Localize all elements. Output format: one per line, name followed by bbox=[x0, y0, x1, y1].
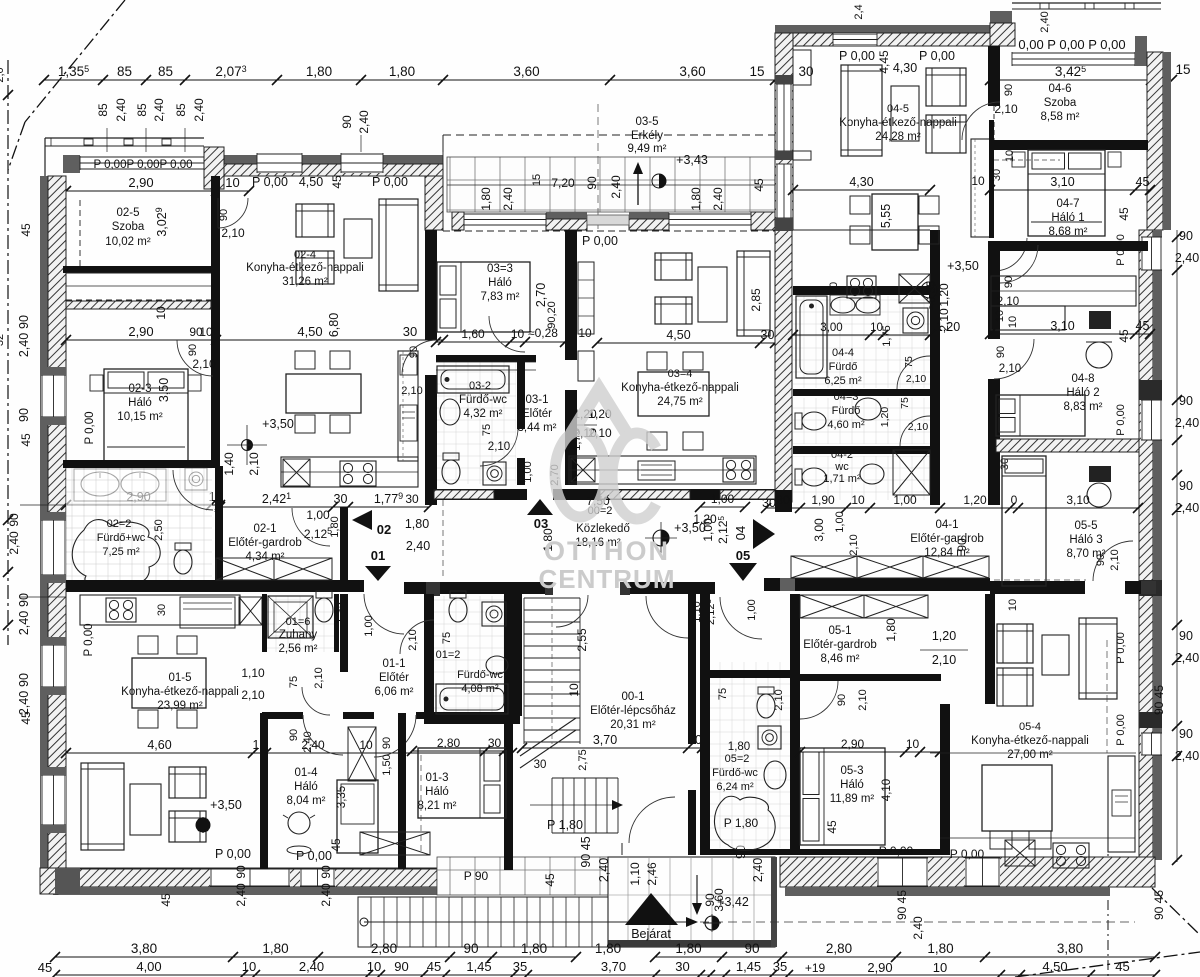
svg-text:7,83 m²: 7,83 m² bbox=[481, 291, 520, 303]
svg-text:10,15 m²: 10,15 m² bbox=[117, 411, 163, 423]
svg-text:3,10: 3,10 bbox=[1066, 493, 1090, 507]
svg-text:90: 90 bbox=[17, 593, 31, 607]
svg-text:Zuhany: Zuhany bbox=[279, 629, 318, 641]
svg-text:90: 90 bbox=[836, 694, 848, 706]
svg-text:P 0,00P 0,00P 0,00: P 0,00P 0,00P 0,00 bbox=[93, 159, 192, 171]
svg-text:1,80: 1,80 bbox=[728, 741, 750, 753]
svg-text:30: 30 bbox=[991, 169, 1003, 181]
svg-text:10: 10 bbox=[994, 310, 1006, 322]
svg-text:7,25 m²: 7,25 m² bbox=[102, 546, 140, 558]
svg-text:2,40: 2,40 bbox=[114, 98, 128, 122]
svg-text:1,50: 1,50 bbox=[381, 754, 393, 775]
svg-text:90: 90 bbox=[340, 115, 354, 129]
svg-text:90: 90 bbox=[17, 673, 31, 687]
svg-text:10: 10 bbox=[851, 493, 865, 507]
svg-text:85: 85 bbox=[174, 103, 188, 117]
svg-text:2,10: 2,10 bbox=[401, 385, 422, 397]
svg-text:4,08 m²: 4,08 m² bbox=[461, 683, 499, 695]
svg-text:90: 90 bbox=[394, 959, 408, 974]
svg-text:3,44 m²: 3,44 m² bbox=[518, 422, 557, 434]
svg-text:90 45: 90 45 bbox=[1152, 685, 1166, 715]
svg-text:CENTRUM: CENTRUM bbox=[539, 564, 676, 594]
svg-text:01-4: 01-4 bbox=[294, 767, 318, 779]
svg-text:P 0,00: P 0,00 bbox=[1115, 632, 1127, 664]
svg-text:1,00: 1,00 bbox=[306, 508, 330, 522]
svg-text:2,0: 2,0 bbox=[0, 67, 6, 82]
svg-text:45: 45 bbox=[543, 873, 557, 887]
svg-text:2,10: 2,10 bbox=[848, 534, 860, 555]
svg-text:Konyha-étkező-nappali: Konyha-étkező-nappali bbox=[839, 117, 957, 129]
svg-text:2,40: 2,40 bbox=[17, 611, 31, 635]
svg-text:P 0,00: P 0,00 bbox=[839, 49, 875, 63]
svg-text:+3,50: +3,50 bbox=[210, 798, 242, 812]
svg-text:31,26 m²: 31,26 m² bbox=[282, 276, 328, 288]
svg-text:2,40: 2,40 bbox=[7, 531, 21, 555]
svg-text:Háló: Háló bbox=[128, 397, 152, 409]
svg-text:90: 90 bbox=[218, 209, 230, 221]
svg-text:01-5: 01-5 bbox=[168, 672, 191, 684]
svg-text:6,80: 6,80 bbox=[327, 313, 341, 337]
svg-text:1,80: 1,80 bbox=[521, 941, 547, 956]
svg-text:11,89 m²: 11,89 m² bbox=[830, 793, 875, 805]
svg-text:2,10: 2,10 bbox=[241, 688, 265, 702]
svg-text:P 90: P 90 bbox=[464, 869, 489, 883]
svg-text:3,10: 3,10 bbox=[1050, 319, 1074, 333]
svg-text:10: 10 bbox=[242, 959, 256, 974]
svg-text:75: 75 bbox=[717, 688, 729, 700]
svg-text:45: 45 bbox=[427, 959, 441, 974]
svg-text:30: 30 bbox=[534, 759, 547, 771]
svg-text:30: 30 bbox=[405, 492, 419, 506]
svg-text:2,10: 2,10 bbox=[773, 689, 785, 710]
svg-text:Fürdő: Fürdő bbox=[829, 361, 858, 373]
svg-text:2,10: 2,10 bbox=[906, 373, 927, 385]
svg-text:2,10: 2,10 bbox=[999, 363, 1021, 375]
svg-text:35: 35 bbox=[513, 959, 527, 974]
svg-text:90: 90 bbox=[17, 408, 31, 422]
svg-text:1,80: 1,80 bbox=[262, 941, 288, 956]
svg-text:+3,43: +3,43 bbox=[676, 153, 708, 167]
svg-text:15: 15 bbox=[531, 174, 543, 186]
svg-text:1,00: 1,00 bbox=[711, 492, 735, 506]
svg-text:1,20: 1,20 bbox=[963, 493, 987, 507]
svg-text:1,80: 1,80 bbox=[927, 941, 953, 956]
svg-text:Háló: Háló bbox=[840, 779, 864, 791]
svg-text:1,10: 1,10 bbox=[241, 666, 265, 680]
svg-text:Fürdő-wc: Fürdő-wc bbox=[459, 394, 507, 406]
svg-text:02=2: 02=2 bbox=[107, 518, 132, 530]
svg-text:6,06 m²: 6,06 m² bbox=[375, 686, 414, 698]
svg-text:01-1: 01-1 bbox=[382, 658, 405, 670]
svg-text:45: 45 bbox=[19, 433, 33, 447]
svg-text:10: 10 bbox=[225, 175, 239, 190]
svg-text:45: 45 bbox=[330, 175, 344, 189]
svg-text:2,40: 2,40 bbox=[501, 187, 515, 211]
svg-text:1,20: 1,20 bbox=[693, 512, 717, 526]
svg-text:1,60: 1,60 bbox=[461, 327, 485, 341]
svg-text:3,70: 3,70 bbox=[601, 959, 626, 974]
svg-text:30: 30 bbox=[403, 324, 417, 339]
svg-text:4,60: 4,60 bbox=[147, 738, 171, 752]
svg-text:2,55: 2,55 bbox=[575, 628, 589, 652]
svg-text:2,10: 2,10 bbox=[313, 667, 325, 688]
svg-text:0: 0 bbox=[1011, 493, 1018, 507]
svg-text:85: 85 bbox=[96, 103, 110, 117]
svg-text:10: 10 bbox=[933, 960, 947, 975]
svg-text:75: 75 bbox=[288, 676, 300, 688]
svg-text:45: 45 bbox=[159, 893, 173, 907]
svg-text:2,40: 2,40 bbox=[711, 187, 725, 211]
svg-text:3,60: 3,60 bbox=[513, 64, 539, 79]
svg-text:2,40: 2,40 bbox=[1039, 11, 1051, 32]
svg-text:1,10: 1,10 bbox=[628, 862, 642, 886]
svg-text:1,00: 1,00 bbox=[522, 461, 534, 482]
svg-text:4,50: 4,50 bbox=[666, 328, 690, 342]
svg-text:Konyha-étkező-nappali: Konyha-étkező-nappali bbox=[121, 686, 239, 698]
svg-text:7,20: 7,20 bbox=[551, 176, 575, 190]
svg-text:4,30: 4,30 bbox=[849, 175, 873, 189]
svg-text:Fürdő: Fürdő bbox=[832, 405, 861, 417]
svg-text:10: 10 bbox=[199, 325, 213, 339]
svg-text:35: 35 bbox=[773, 959, 787, 974]
svg-text:Előtér-gardrob: Előtér-gardrob bbox=[910, 533, 984, 545]
svg-text:Háló: Háló bbox=[294, 781, 318, 793]
svg-text:20,31 m²: 20,31 m² bbox=[610, 719, 656, 731]
svg-text:OTTHON: OTTHON bbox=[544, 536, 670, 566]
svg-text:2,56 m²: 2,56 m² bbox=[279, 643, 318, 655]
svg-text:04: 04 bbox=[733, 526, 748, 540]
svg-text:4,00: 4,00 bbox=[136, 959, 161, 974]
svg-text:P 0,00: P 0,00 bbox=[582, 234, 618, 248]
svg-text:3,60: 3,60 bbox=[712, 888, 726, 912]
svg-text:01=6: 01=6 bbox=[286, 616, 311, 628]
svg-text:75: 75 bbox=[899, 397, 911, 409]
svg-text:90: 90 bbox=[585, 176, 599, 190]
svg-text:3,10: 3,10 bbox=[1050, 175, 1074, 189]
svg-text:4,10: 4,10 bbox=[881, 779, 893, 801]
svg-text:2,10: 2,10 bbox=[221, 226, 245, 240]
svg-text:2,90: 2,90 bbox=[128, 175, 153, 190]
svg-text:1,45: 1,45 bbox=[736, 959, 761, 974]
svg-text:2,50: 2,50 bbox=[153, 519, 165, 540]
svg-text:P 0,00: P 0,00 bbox=[252, 175, 288, 189]
svg-text:90: 90 bbox=[187, 344, 199, 356]
svg-text:05-5: 05-5 bbox=[1074, 520, 1097, 532]
svg-text:Közlekedő: Közlekedő bbox=[576, 523, 630, 535]
svg-text:+3,50: +3,50 bbox=[947, 259, 979, 273]
svg-text:00-1: 00-1 bbox=[621, 691, 644, 703]
svg-text:45: 45 bbox=[825, 820, 839, 834]
svg-text:8,04 m²: 8,04 m² bbox=[287, 795, 326, 807]
svg-text:2,40: 2,40 bbox=[911, 916, 925, 940]
svg-text:90: 90 bbox=[463, 941, 478, 956]
svg-text:P 0,00: P 0,00 bbox=[296, 849, 332, 863]
svg-text:10: 10 bbox=[828, 282, 840, 294]
svg-text:90 45: 90 45 bbox=[895, 890, 909, 920]
svg-text:1,20: 1,20 bbox=[937, 283, 951, 307]
svg-text:Fürdő+wc: Fürdő+wc bbox=[97, 532, 146, 544]
svg-text:90: 90 bbox=[234, 865, 248, 879]
svg-text:1,80: 1,80 bbox=[329, 516, 341, 537]
svg-text:2,40: 2,40 bbox=[234, 883, 248, 907]
svg-text:4,60 m²: 4,60 m² bbox=[827, 419, 865, 431]
svg-text:10: 10 bbox=[1007, 316, 1019, 328]
svg-text:P 1,80: P 1,80 bbox=[724, 816, 759, 830]
svg-text:05-4: 05-4 bbox=[1019, 721, 1041, 733]
svg-text:+19: +19 bbox=[805, 961, 826, 975]
svg-text:27,00 m²: 27,00 m² bbox=[1007, 749, 1053, 761]
svg-text:2,10: 2,10 bbox=[994, 102, 1018, 116]
svg-text:Fürdő-wc: Fürdő-wc bbox=[712, 767, 758, 779]
svg-text:8,83 m²: 8,83 m² bbox=[1064, 401, 1103, 413]
svg-text:24,75 m²: 24,75 m² bbox=[657, 396, 703, 408]
svg-text:2,40: 2,40 bbox=[609, 175, 623, 199]
svg-text:2,10: 2,10 bbox=[407, 629, 419, 650]
svg-text:2,80: 2,80 bbox=[826, 941, 852, 956]
svg-text:1,80: 1,80 bbox=[389, 64, 415, 79]
svg-text:Háló: Háló bbox=[425, 786, 449, 798]
svg-text:P 0,00: P 0,00 bbox=[879, 844, 914, 858]
svg-text:1,80: 1,80 bbox=[689, 187, 703, 211]
svg-text:10: 10 bbox=[511, 327, 525, 341]
svg-text:4,45: 4,45 bbox=[877, 50, 891, 74]
svg-text:2,90: 2,90 bbox=[128, 324, 153, 339]
svg-text:Háló 3: Háló 3 bbox=[1069, 534, 1102, 546]
svg-text:4,32 m²: 4,32 m² bbox=[464, 408, 503, 420]
svg-text:5,55: 5,55 bbox=[879, 204, 893, 228]
svg-text:2,10: 2,10 bbox=[192, 357, 216, 371]
svg-text:90: 90 bbox=[381, 737, 393, 749]
svg-text:04-6: 04-6 bbox=[1048, 83, 1071, 95]
svg-text:9,49 m²: 9,49 m² bbox=[628, 143, 667, 155]
svg-text:3,80: 3,80 bbox=[131, 941, 157, 956]
svg-text:Előtér-gardrob: Előtér-gardrob bbox=[803, 639, 877, 651]
svg-text:90: 90 bbox=[995, 346, 1007, 358]
svg-text:P 0,00: P 0,00 bbox=[84, 411, 96, 444]
svg-text:2,80: 2,80 bbox=[371, 941, 397, 956]
svg-text:85: 85 bbox=[135, 103, 149, 117]
svg-text:2,80: 2,80 bbox=[437, 736, 461, 750]
svg-text:2,40: 2,40 bbox=[299, 959, 324, 974]
svg-text:Konyha-étkező-nappali: Konyha-étkező-nappali bbox=[971, 735, 1089, 747]
svg-text:45: 45 bbox=[1136, 319, 1150, 333]
svg-text:2,46: 2,46 bbox=[645, 862, 659, 886]
svg-text:30: 30 bbox=[488, 736, 502, 750]
svg-text:P 0,00: P 0,00 bbox=[919, 49, 955, 63]
svg-text:90: 90 bbox=[1095, 554, 1107, 566]
svg-text:90 45: 90 45 bbox=[579, 836, 593, 867]
svg-text:2,75: 2,75 bbox=[577, 749, 589, 770]
svg-text:45: 45 bbox=[1117, 329, 1131, 343]
svg-text:10: 10 bbox=[567, 683, 581, 697]
svg-text:05=2: 05=2 bbox=[725, 753, 750, 765]
svg-text:1,80: 1,80 bbox=[675, 941, 701, 956]
svg-text:3,00: 3,00 bbox=[820, 322, 842, 334]
svg-text:90: 90 bbox=[1003, 84, 1015, 96]
svg-text:12,84 m²: 12,84 m² bbox=[924, 547, 970, 559]
svg-text:1,80: 1,80 bbox=[479, 187, 493, 211]
svg-text:4,50: 4,50 bbox=[1042, 959, 1067, 974]
svg-text:4,50: 4,50 bbox=[299, 175, 323, 189]
svg-text:04-7: 04-7 bbox=[1056, 198, 1079, 210]
svg-text:45: 45 bbox=[38, 960, 52, 975]
svg-text:Háló: Háló bbox=[488, 277, 512, 289]
svg-text:90: 90 bbox=[288, 729, 300, 741]
svg-text:90: 90 bbox=[1179, 629, 1193, 643]
svg-text:30: 30 bbox=[776, 493, 790, 507]
svg-text:90: 90 bbox=[1179, 479, 1193, 493]
svg-text:Előtér-gardrob: Előtér-gardrob bbox=[228, 537, 302, 549]
svg-text:3,60: 3,60 bbox=[679, 64, 705, 79]
svg-text:2,10: 2,10 bbox=[997, 296, 1019, 308]
svg-text:2,90: 2,90 bbox=[867, 960, 892, 975]
svg-text:45: 45 bbox=[1115, 959, 1129, 974]
svg-text:90: 90 bbox=[7, 513, 21, 527]
svg-text:10: 10 bbox=[1007, 599, 1019, 611]
svg-text:2,90: 2,90 bbox=[841, 737, 865, 751]
svg-text:6,24 m²: 6,24 m² bbox=[716, 781, 754, 793]
svg-text:Szoba: Szoba bbox=[112, 221, 145, 233]
svg-text:45: 45 bbox=[752, 178, 766, 192]
svg-text:1,80: 1,80 bbox=[884, 618, 898, 642]
svg-text:90: 90 bbox=[1003, 276, 1015, 288]
svg-text:15: 15 bbox=[749, 64, 764, 79]
svg-text:90: 90 bbox=[1179, 229, 1193, 243]
svg-text:1,80: 1,80 bbox=[306, 64, 332, 79]
svg-text:04-2: 04-2 bbox=[831, 449, 853, 461]
svg-text:2,40: 2,40 bbox=[1175, 749, 1199, 763]
svg-text:Erkély: Erkély bbox=[631, 130, 663, 142]
svg-text:3,80: 3,80 bbox=[1057, 941, 1083, 956]
svg-text:90 45: 90 45 bbox=[1152, 890, 1166, 920]
svg-text:P 0,00: P 0,00 bbox=[950, 847, 985, 861]
svg-text:03-2: 03-2 bbox=[469, 380, 491, 392]
svg-text:1,80: 1,80 bbox=[595, 941, 621, 956]
svg-text:45: 45 bbox=[19, 711, 33, 725]
svg-text:1,45: 1,45 bbox=[466, 959, 491, 974]
svg-text:6,25 m²: 6,25 m² bbox=[824, 375, 862, 387]
svg-text:75: 75 bbox=[441, 632, 453, 644]
svg-text:Fürdő-wc: Fürdő-wc bbox=[457, 669, 503, 681]
svg-text:10: 10 bbox=[971, 174, 985, 188]
svg-text:90: 90 bbox=[319, 865, 333, 879]
svg-text:2,10: 2,10 bbox=[908, 421, 929, 433]
svg-text:10: 10 bbox=[578, 326, 592, 340]
svg-text:2,4: 2,4 bbox=[853, 4, 865, 19]
svg-text:04=3: 04=3 bbox=[834, 391, 859, 403]
svg-text:P 0,00: P 0,00 bbox=[83, 623, 95, 656]
svg-text:90: 90 bbox=[408, 346, 420, 358]
svg-text:wc: wc bbox=[834, 461, 849, 473]
svg-text:2,10: 2,10 bbox=[1109, 549, 1121, 570]
svg-text:2,40: 2,40 bbox=[192, 98, 206, 122]
svg-text:75: 75 bbox=[481, 424, 493, 436]
svg-text:30: 30 bbox=[675, 959, 689, 974]
svg-text:1,00: 1,00 bbox=[834, 511, 846, 532]
svg-text:75: 75 bbox=[903, 356, 915, 368]
svg-text:8,46 m²: 8,46 m² bbox=[821, 653, 860, 665]
svg-text:Bejárat: Bejárat bbox=[631, 927, 671, 941]
svg-text:P 0,00: P 0,00 bbox=[215, 847, 251, 861]
svg-text:1,90: 1,90 bbox=[811, 493, 835, 507]
svg-text:30: 30 bbox=[334, 492, 348, 506]
svg-text:1,00: 1,00 bbox=[363, 615, 375, 636]
svg-text:04-1: 04-1 bbox=[935, 519, 958, 531]
svg-text:4,50: 4,50 bbox=[297, 324, 322, 339]
svg-text:90: 90 bbox=[17, 315, 31, 329]
svg-text:01=2: 01=2 bbox=[436, 649, 461, 661]
svg-text:30: 30 bbox=[156, 604, 168, 616]
svg-text:2,40: 2,40 bbox=[1175, 251, 1199, 265]
svg-text:Szoba: Szoba bbox=[1044, 97, 1077, 109]
svg-text:Konyha-étkező-nappali: Konyha-étkező-nappali bbox=[621, 382, 739, 394]
svg-text:2,10: 2,10 bbox=[937, 308, 951, 332]
svg-text:01: 01 bbox=[371, 548, 385, 563]
svg-text:2,40: 2,40 bbox=[357, 110, 371, 134]
svg-text:30: 30 bbox=[761, 328, 775, 342]
svg-text:15: 15 bbox=[1175, 62, 1190, 77]
svg-text:85: 85 bbox=[158, 64, 173, 79]
svg-text:Előtér-lépcsőház: Előtér-lépcsőház bbox=[590, 705, 676, 717]
svg-text:90: 90 bbox=[744, 941, 759, 956]
svg-text:P 0,00: P 0,00 bbox=[372, 175, 408, 189]
svg-text:03=3: 03=3 bbox=[487, 263, 513, 275]
svg-text:2,10: 2,10 bbox=[247, 452, 261, 476]
svg-text:04-5: 04-5 bbox=[887, 103, 909, 115]
svg-text:1,00: 1,00 bbox=[746, 599, 758, 620]
svg-text:2,40: 2,40 bbox=[1175, 416, 1199, 430]
svg-text:2,40: 2,40 bbox=[319, 883, 333, 907]
svg-text:02-1: 02-1 bbox=[253, 523, 276, 535]
svg-text:10: 10 bbox=[906, 737, 920, 751]
svg-text:4,30: 4,30 bbox=[893, 61, 917, 75]
svg-text:3,50: 3,50 bbox=[157, 378, 171, 402]
svg-text:2,10: 2,10 bbox=[932, 653, 956, 667]
svg-text:10: 10 bbox=[870, 322, 883, 334]
svg-text:P 0,00: P 0,00 bbox=[1115, 714, 1127, 746]
svg-text:1,80: 1,80 bbox=[405, 517, 429, 531]
svg-text:10,02 m²: 10,02 m² bbox=[105, 236, 151, 248]
svg-text:2,10: 2,10 bbox=[488, 441, 510, 453]
svg-text:04-8: 04-8 bbox=[1071, 373, 1094, 385]
svg-text:90,20: 90,20 bbox=[546, 301, 558, 329]
svg-text:03-1: 03-1 bbox=[525, 394, 548, 406]
svg-text:8,21 m²: 8,21 m² bbox=[418, 800, 457, 812]
svg-text:1,20: 1,20 bbox=[932, 629, 956, 643]
svg-text:45: 45 bbox=[19, 223, 33, 237]
svg-text:45: 45 bbox=[1117, 207, 1131, 221]
svg-text:Előtér: Előtér bbox=[522, 408, 552, 420]
svg-text:10: 10 bbox=[154, 306, 168, 320]
svg-text:1,40: 1,40 bbox=[222, 452, 236, 476]
svg-text:01-3: 01-3 bbox=[425, 772, 448, 784]
svg-text:P 1,80: P 1,80 bbox=[547, 818, 583, 832]
svg-text:85: 85 bbox=[117, 64, 132, 79]
svg-text:04-4: 04-4 bbox=[832, 347, 854, 359]
svg-text:2,40: 2,40 bbox=[751, 858, 765, 882]
svg-text:0,00 P 0,00 P 0,00: 0,00 P 0,00 P 0,00 bbox=[1018, 37, 1125, 52]
svg-text:8,58 m²: 8,58 m² bbox=[1041, 111, 1080, 123]
svg-text:02-5: 02-5 bbox=[116, 207, 139, 219]
svg-text:1,71 m²: 1,71 m² bbox=[823, 473, 861, 485]
svg-text:3,35: 3,35 bbox=[336, 786, 348, 808]
svg-text:Konyha-étkező-nappali: Konyha-étkező-nappali bbox=[246, 262, 364, 274]
svg-text:2,40: 2,40 bbox=[152, 98, 166, 122]
svg-text:+3,50: +3,50 bbox=[262, 417, 294, 431]
svg-text:05: 05 bbox=[736, 548, 750, 563]
svg-text:3,00: 3,00 bbox=[812, 518, 826, 542]
svg-text:03-5: 03-5 bbox=[635, 116, 658, 128]
